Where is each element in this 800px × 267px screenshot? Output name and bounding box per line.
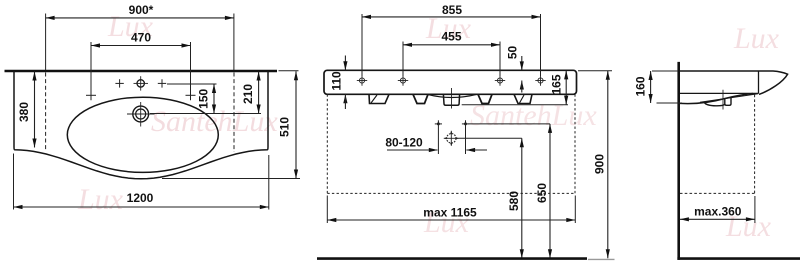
adjustable fixing symbol (444, 131, 459, 146)
dimension 50 (505, 46, 524, 93)
svg-text:80-120: 80-120 (385, 135, 423, 149)
svg-text:165: 165 (550, 74, 564, 94)
mounting hole cross 1 (357, 75, 367, 85)
wall line side view (677, 62, 680, 260)
dimension 380 (17, 72, 37, 148)
svg-text:900: 900 (593, 154, 607, 174)
watermark SantehLux center-left (151, 105, 278, 138)
drain centre line front (451, 88, 453, 109)
floor line front view (317, 257, 587, 260)
watermark Lux top-middle (425, 12, 472, 45)
foot tab 4 (514, 94, 532, 103)
mounting hole cross 2 (398, 75, 408, 85)
dimension 650 (535, 124, 552, 258)
watermark Lux bottom-center (423, 206, 470, 239)
foot tab 2 (413, 94, 428, 103)
dashed reference line right (900 span) (233, 73, 235, 153)
dimension 510 (162, 71, 300, 179)
basin side underside curve (680, 94, 753, 104)
svg-text:650: 650 (535, 183, 549, 203)
dashed outline max width right (574, 94, 576, 193)
basin front outline bar (324, 70, 577, 94)
470 reference cross right (186, 90, 196, 100)
wall edge line plan view (5, 70, 278, 73)
dimension 80-120 (385, 128, 487, 155)
dimension 1200 (14, 154, 269, 210)
dimension 160 (633, 71, 682, 103)
svg-text:Lux: Lux (77, 183, 124, 216)
dimension 580 (507, 138, 524, 258)
connector bolt row to 650 (469, 123, 551, 125)
svg-text:470: 470 (131, 30, 151, 44)
svg-text:Lux: Lux (733, 22, 780, 55)
svg-text:max 1165: max 1165 (423, 205, 477, 219)
dimension 900* (46, 3, 234, 70)
watermark Lux top-right (733, 22, 780, 55)
connector fixing row to 580 (459, 137, 522, 139)
dimension 210 (241, 72, 261, 114)
foot tab 1 (369, 94, 389, 103)
faucet hole (large, with centre cross) (127, 102, 155, 127)
470 reference cross left (86, 90, 96, 100)
svg-text:150: 150 (197, 88, 211, 108)
dimension max.360 (680, 196, 755, 223)
extension bar top to 900 (578, 70, 612, 72)
wall bolt mark right (462, 120, 469, 127)
alternate tap position cross left (115, 79, 123, 87)
dimension 855 (362, 3, 541, 76)
drain box front (443, 94, 459, 105)
watermark Lux bottom-right (725, 210, 772, 243)
floor line grey extension (588, 258, 615, 260)
svg-text:855: 855 (442, 3, 462, 17)
dimension 900 (593, 71, 610, 258)
dashed reference line left (900 span) (45, 73, 47, 150)
deck tap hole (small, with cross) (134, 76, 149, 90)
dashed outline max width left (326, 94, 328, 193)
side drain slant line (700, 94, 758, 103)
dimension max 1165 (327, 196, 575, 224)
watermark Lux top-left (107, 10, 154, 43)
alternate tap position cross right (158, 79, 166, 87)
dimension 150 (150, 84, 261, 114)
svg-text:510: 510 (278, 117, 292, 137)
floor line side view (677, 257, 800, 260)
svg-text:110: 110 (329, 71, 343, 91)
underside arc (427, 94, 477, 97)
watermark SantehLux center-right (470, 99, 597, 132)
mounting hole cross 3 (495, 75, 505, 85)
svg-text:380: 380 (17, 102, 31, 122)
foot tab 3 (478, 94, 492, 103)
dashed depth line vertical (754, 95, 756, 194)
dimension 165 (550, 70, 569, 104)
dimension 110 (329, 56, 347, 110)
extension line foot bottom (462, 104, 568, 106)
svg-text:max.360: max.360 (694, 205, 742, 219)
svg-text:160: 160 (633, 76, 647, 96)
watermark Lux bottom-left (77, 183, 124, 216)
wall bolt mark left (435, 120, 442, 127)
dashed depth line horizontal (680, 192, 755, 194)
mounting hole cross 4 (535, 75, 545, 85)
basin side profile top and beak (680, 71, 788, 94)
svg-text:1200: 1200 (127, 191, 154, 205)
dimension 470 (91, 30, 191, 91)
dimension 455 (403, 29, 500, 76)
svg-text:50: 50 (505, 46, 519, 60)
svg-text:455: 455 (441, 29, 461, 43)
side drain centre line (722, 90, 724, 110)
svg-text:900*: 900* (129, 3, 154, 17)
bowl ellipse (67, 97, 218, 172)
side drain box (725, 97, 731, 105)
svg-text:210: 210 (241, 84, 255, 104)
basin outline plan (14, 71, 268, 179)
side trap bump (705, 103, 725, 106)
dashed outline max width bottom (327, 192, 575, 194)
